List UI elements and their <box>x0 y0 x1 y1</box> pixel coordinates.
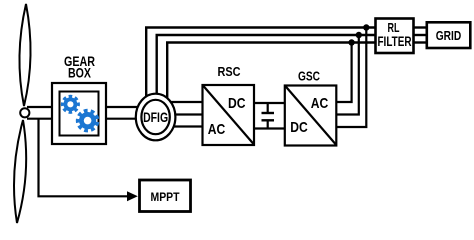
wire: GSC output phase c (up to junction on stator line a) <box>336 28 366 128</box>
turbine lower blade <box>14 120 26 223</box>
arrowhead into MPPT <box>127 191 138 201</box>
wire: DC link positive rail <box>254 102 285 104</box>
wire: filter to grid phase c <box>414 41 428 43</box>
gear box inner frame <box>60 92 99 136</box>
wire: GSC output phase b (up to junction on stator line b) <box>336 35 359 115</box>
capacitor C top plate <box>262 112 275 114</box>
wire: rotor phase c (DFIG to RSC) <box>160 125 203 127</box>
svg-text:DC: DC <box>290 119 308 136</box>
gear big (blue) <box>76 109 99 133</box>
RSC diagonal <box>203 86 254 145</box>
wire: stator phase b (DFIG top to RL filter, middle loop) <box>157 35 376 96</box>
converter GSC box <box>285 86 337 146</box>
gear small (blue) <box>61 95 80 114</box>
generator DFIG inner ring <box>141 100 169 134</box>
wire: MPPT feed (down from shaft, right to MPPT arrow) <box>39 119 130 197</box>
block GRID box <box>427 22 471 48</box>
svg-text:AC: AC <box>208 121 226 138</box>
svg-text:AC: AC <box>311 95 329 112</box>
wire: stator phase c (DFIG top to RL filter, inner loop) <box>167 43 375 101</box>
converter RSC box <box>203 85 255 145</box>
wire: stator phase a (DFIG top to RL filter, outer loop) <box>146 28 375 101</box>
turbine hub <box>20 108 29 117</box>
junction dot on stator line c <box>348 39 354 45</box>
junction dot on stator line a <box>363 24 369 30</box>
wire: filter to grid phase b <box>414 34 428 36</box>
wire: GSC output phase a (up to junction on stator line c) <box>336 43 351 103</box>
filter RL FILTER box <box>376 19 414 54</box>
svg-text:FILTER: FILTER <box>378 34 412 49</box>
GSC diagonal <box>285 86 336 145</box>
turbine upper blade <box>19 4 30 106</box>
gear big hub hole <box>84 117 92 125</box>
wire: filter to grid phase a <box>414 26 428 28</box>
wire: shaft upper line (hub to DFIG through gear box) <box>27 106 140 108</box>
svg-text:RSC: RSC <box>218 65 241 79</box>
svg-text:MPPT: MPPT <box>151 190 181 204</box>
svg-text:DC: DC <box>228 95 246 112</box>
svg-text:DFIG: DFIG <box>143 109 168 125</box>
wire: DC link negative rail <box>254 127 285 129</box>
wire: rotor phase b (DFIG to RSC) <box>170 113 203 115</box>
svg-text:BOX: BOX <box>68 66 91 81</box>
block MPPT box <box>140 180 191 212</box>
capacitor C bottom plate <box>262 119 275 121</box>
svg-text:RL: RL <box>388 20 400 35</box>
wire: shaft lower line (hub to DFIG through gear box) <box>27 118 140 120</box>
gear small hub hole <box>67 101 73 107</box>
capacitor C bottom lead <box>267 120 269 128</box>
wire: rotor phase a (DFIG to RSC) <box>160 101 203 103</box>
svg-text:GSC: GSC <box>298 70 320 84</box>
svg-text:GRID: GRID <box>436 28 462 43</box>
junction dot on stator line b <box>356 32 362 38</box>
gear box outer frame <box>52 83 106 144</box>
capacitor C (DC link): top lead <box>267 103 269 113</box>
generator DFIG outer ring <box>136 94 176 141</box>
